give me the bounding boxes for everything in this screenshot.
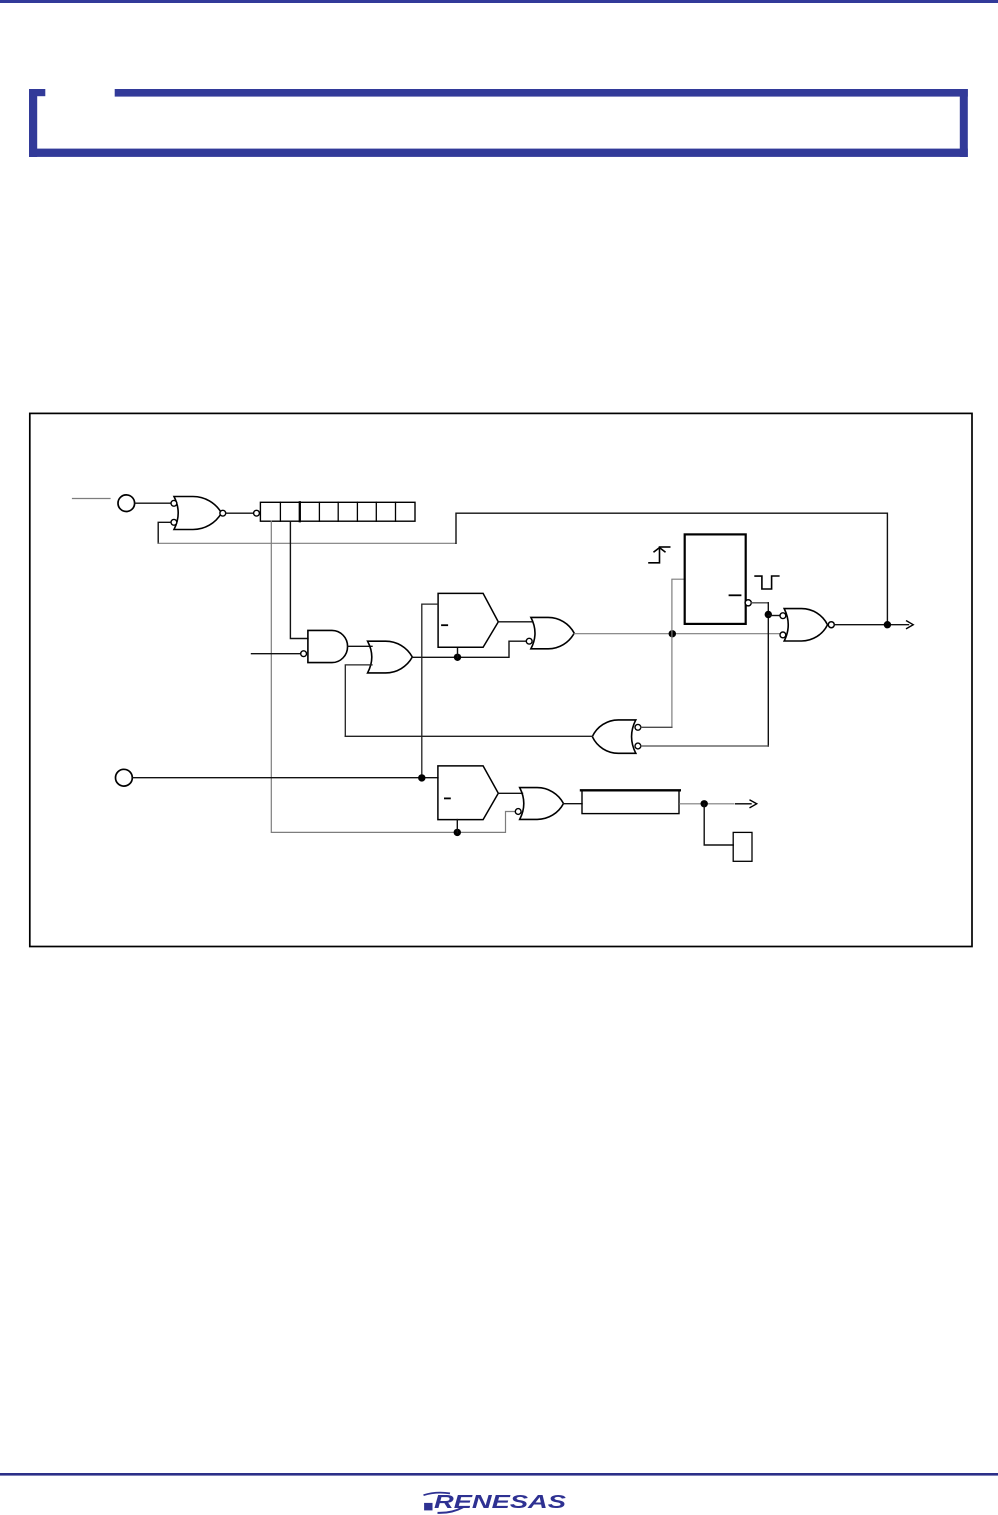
Renesas logo square [424, 1503, 432, 1511]
wire input to G2 lower (from left) [252, 653, 301, 655]
pad box [733, 832, 752, 861]
junction dot D (output node) [884, 621, 891, 628]
junction dot C [765, 611, 772, 618]
G6 input bubble top [635, 724, 641, 730]
junction dot F [454, 829, 461, 836]
wire G3 output run [412, 641, 526, 657]
wire G6 output to G3 riser [345, 735, 592, 737]
gate G1 (OR shape, inverted inputs and output) [174, 497, 222, 530]
Renesas logo R tail swoosh [438, 1507, 464, 1513]
register input bubble [254, 510, 260, 516]
G1 output bubble [220, 510, 226, 516]
rising-edge symbol [649, 547, 670, 563]
node label stub (grey) [73, 498, 111, 500]
comparator C2 [438, 766, 498, 820]
gate G3 (OR) [368, 641, 413, 673]
output arrow TMCI shaft [736, 803, 752, 805]
wire G1 lower-input feedback stub [158, 522, 171, 543]
junction dot G [701, 800, 708, 807]
comparator C1 [438, 593, 498, 647]
wire feedback horizontal (grey) [158, 542, 456, 544]
divider block thick top edge [581, 789, 680, 791]
wire G1 out to register bubble [226, 512, 254, 514]
wire FF1 Qbar stub [751, 602, 768, 604]
G1 input bubble top [171, 500, 177, 506]
G1 input bubble bottom [171, 519, 177, 525]
junction dot A [454, 654, 461, 661]
FF1 Qbar bubble [745, 600, 751, 606]
gate G5 (OR shape, inverted inputs and output) [784, 609, 827, 641]
wire node C to gate G5 upper input [768, 615, 780, 617]
G6 input bubble bottom [635, 743, 641, 749]
diagram frame [30, 413, 972, 946]
junction dot B [669, 630, 676, 637]
wire G6 bottom input to Qbar riser [641, 745, 768, 747]
wire register bit1 down to gate G2 [290, 521, 308, 638]
input pin circle P2 [116, 769, 133, 786]
gate G2 (AND, one inverted input) [308, 630, 348, 662]
C1 minus label [442, 624, 447, 626]
G5 input bubble bottom [780, 632, 786, 638]
wire node A up into comparator C1 [457, 647, 459, 657]
wire G7 out to divider [564, 803, 583, 805]
G2 lower input bubble [301, 651, 307, 657]
falling-pulse symbol [755, 576, 779, 589]
wire C1 out to gate G4 [498, 621, 532, 623]
register cell dividers [280, 502, 395, 521]
wire Qbar riser down to XNOR lower input [767, 603, 769, 746]
wire divider out (grey) [680, 803, 734, 805]
wire C2 out to gate G7 [498, 792, 522, 794]
wire node G down to pad box [704, 804, 733, 845]
G5 output bubble [828, 622, 834, 628]
wire C1 top input riser down to TCNT bus [422, 604, 438, 778]
wire G6 top input to node B riser [641, 726, 672, 728]
wire P1 to gate G1 [135, 502, 171, 504]
output arrowhead [750, 800, 757, 807]
register thick divider [299, 502, 301, 521]
counter register TCNT (8 cells) [260, 502, 415, 521]
flip-flop FF1 [685, 534, 746, 624]
wire G3 lower input from XNOR feedback riser [345, 665, 372, 736]
wire G2 out to G3 [348, 645, 372, 647]
wire G4 out compare-match line (grey) [574, 633, 780, 635]
wire register bit0 down (grey long) [271, 521, 515, 832]
C2 minus label [445, 797, 450, 799]
svg-text:RENESAS: RENESAS [434, 1492, 566, 1512]
wire node B up to FF input and down to XNOR [672, 579, 685, 727]
input pin circle P1 [118, 495, 135, 512]
wire node F up into C2 [456, 820, 458, 833]
G7 lower input bubble [515, 809, 521, 815]
footer rule [0, 1473, 998, 1476]
wire feedback riser and top run to output node [456, 513, 887, 625]
FF1 Qbar dash label [730, 594, 741, 596]
junction dot E [418, 774, 425, 781]
section title frame [29, 89, 968, 157]
gate G6 (mirrored OR, inverted inputs, points left) [592, 720, 636, 753]
gate G4 (OR, one inverted input) [531, 617, 574, 648]
Renesas logo R top swoosh [424, 1493, 451, 1496]
G5 input bubble top [780, 613, 786, 619]
gate G7 (OR, one inverted input) [520, 788, 564, 820]
wire P2 bus to comparator C2 [132, 777, 438, 779]
G4 lower input bubble [526, 638, 532, 644]
output arrowhead TMO [907, 621, 914, 629]
wire G5 output [834, 624, 908, 626]
divider block [582, 790, 679, 813]
top page rule bar [0, 0, 998, 3]
